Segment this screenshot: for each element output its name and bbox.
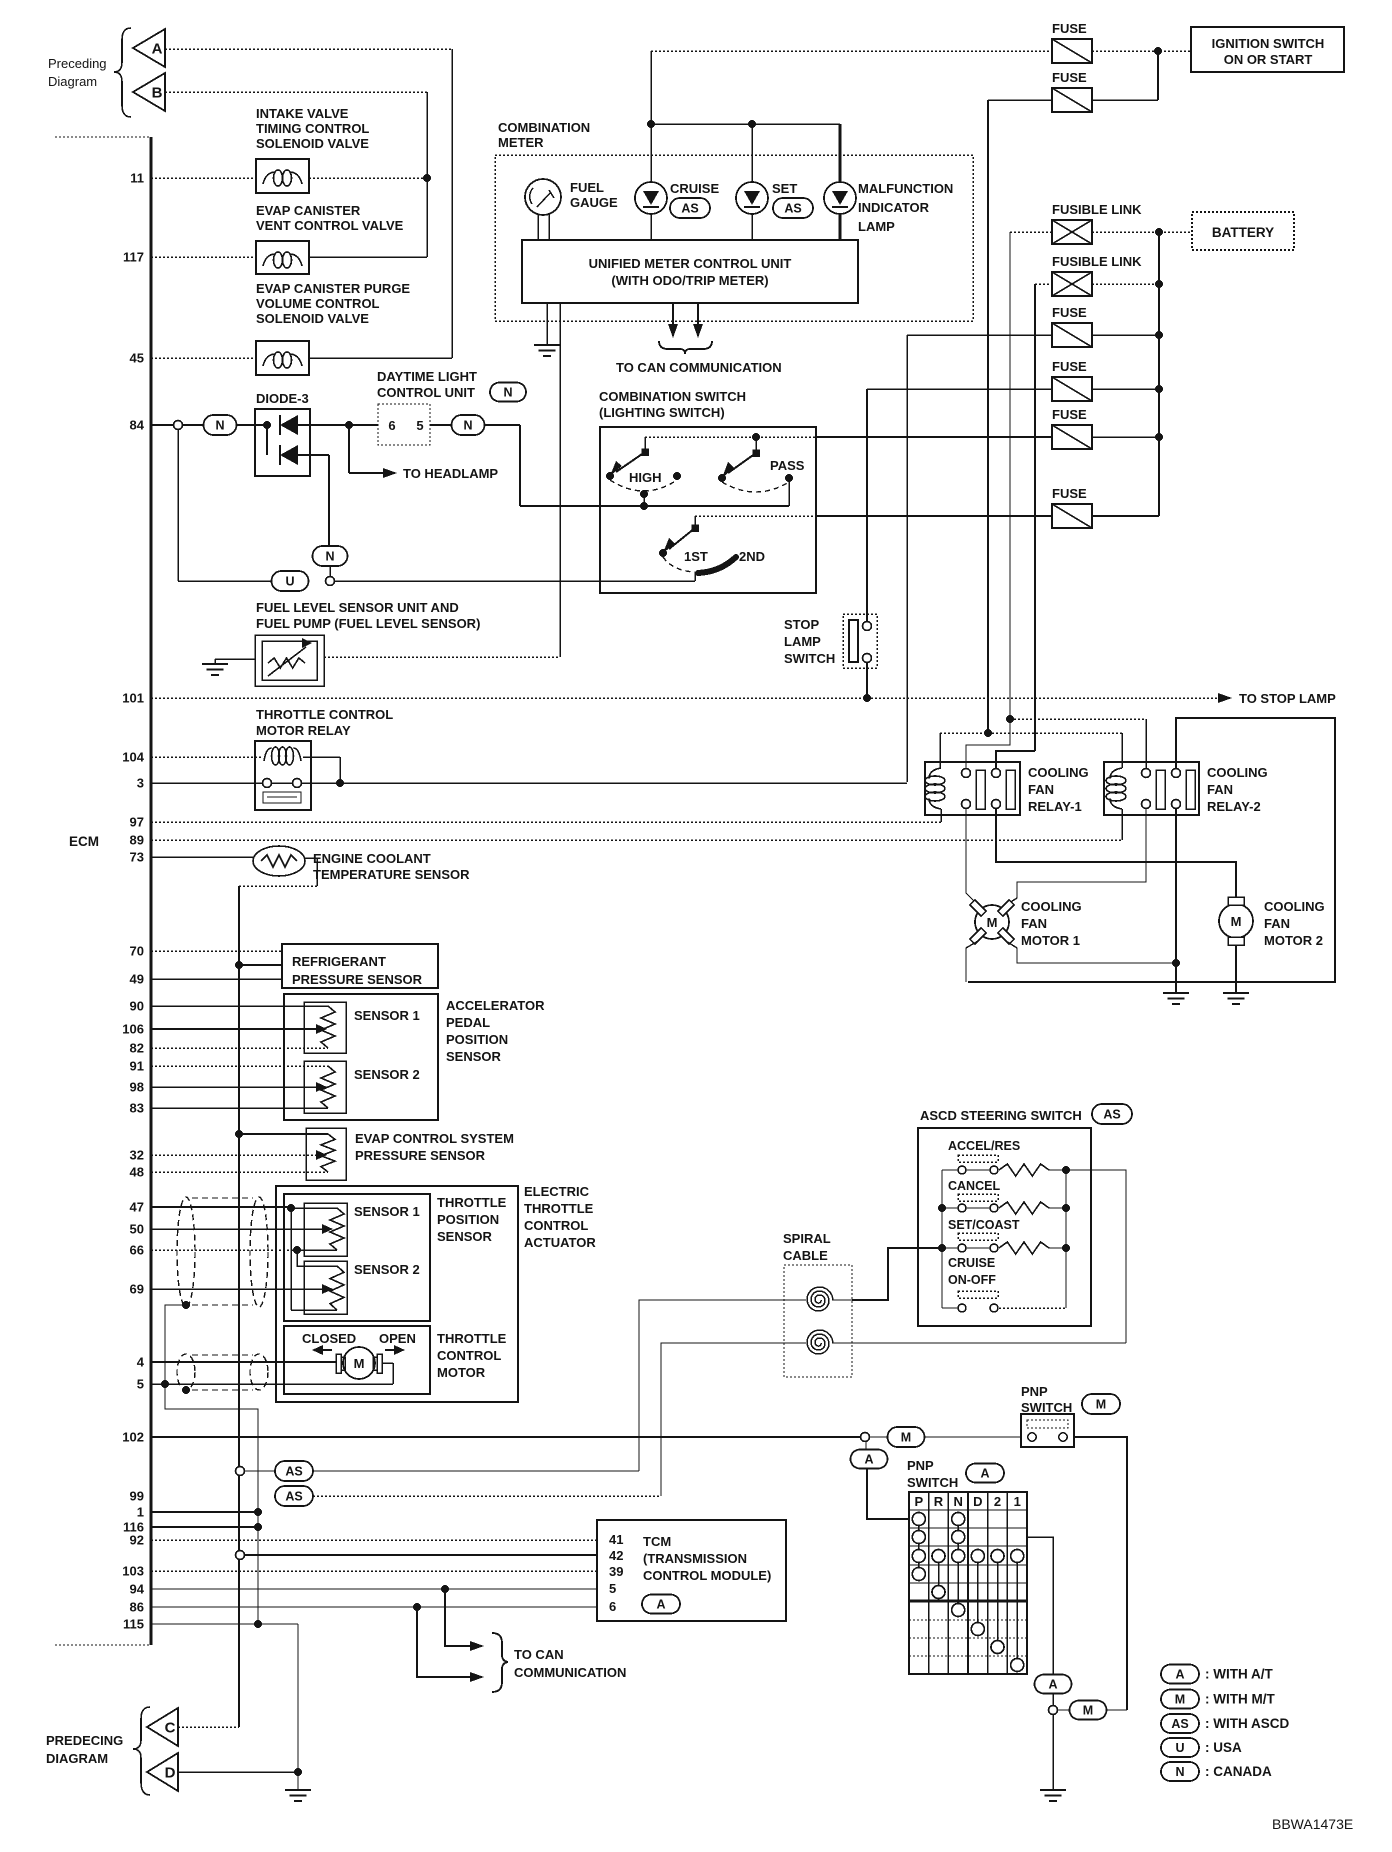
svg-text:HIGH: HIGH [629, 470, 662, 485]
svg-text:R: R [934, 1494, 944, 1509]
svg-text:UNIFIED METER CONTROL UNIT: UNIFIED METER CONTROL UNIT [589, 256, 792, 271]
svg-text:FAN: FAN [1207, 782, 1233, 797]
svg-text:DAYTIME LIGHT: DAYTIME LIGHT [377, 369, 477, 384]
svg-text:COOLING: COOLING [1028, 765, 1089, 780]
svg-text:THROTTLE CONTROL: THROTTLE CONTROL [256, 707, 393, 722]
svg-text:AS: AS [681, 202, 698, 216]
svg-text:FUSE: FUSE [1052, 407, 1087, 422]
svg-text:THROTTLE: THROTTLE [437, 1195, 507, 1210]
svg-text:47: 47 [130, 1200, 144, 1215]
svg-text:A: A [656, 1598, 665, 1612]
relay2 top-left contact feed from fusible link 1 [1006, 715, 1014, 723]
relay1 bottom-right to motor2 [996, 808, 1236, 898]
svg-text:73: 73 [130, 850, 144, 865]
wire fuel sensor to U/N net [324, 656, 560, 658]
svg-text:N: N [463, 419, 472, 433]
svg-text:CONTROL: CONTROL [524, 1218, 588, 1233]
svg-text:COMBINATION: COMBINATION [498, 120, 590, 135]
svg-text:84: 84 [130, 418, 145, 433]
svg-text:AS: AS [285, 1465, 302, 1479]
svg-text:U: U [285, 575, 294, 589]
U oval (USA) [272, 571, 309, 591]
CAN wires from meter [672, 303, 674, 324]
svg-text:M: M [987, 915, 998, 930]
svg-text:A: A [1175, 1668, 1184, 1682]
wire temp sensor down the sensor-ground bus [304, 857, 317, 859]
A oval (pin102 branch) [865, 1442, 867, 1450]
ASCD wire 1 (accel/cancel side) [313, 1470, 639, 1472]
wire pin 5 row [382, 1362, 393, 1364]
svg-text:FAN: FAN [1264, 916, 1290, 931]
PNP table contact circles [918, 1519, 920, 1574]
svg-text:M: M [1096, 1398, 1106, 1412]
ignition switch box [1191, 27, 1344, 72]
wire diode2 to N oval [328, 455, 330, 546]
shield (twisted pair) rows 4-5 [177, 1354, 195, 1390]
relay1 coil to pin 97 row [940, 809, 942, 822]
svg-text:COOLING: COOLING [1207, 765, 1268, 780]
svg-text:M: M [354, 1356, 365, 1371]
svg-text:ACCEL/RES: ACCEL/RES [948, 1139, 1020, 1153]
svg-text:ON OR START: ON OR START [1224, 52, 1313, 67]
svg-text:FUSE: FUSE [1052, 486, 1087, 501]
svg-text:(WITH ODO/TRIP METER): (WITH ODO/TRIP METER) [611, 273, 768, 288]
diode-3 box [255, 409, 310, 476]
svg-text:M: M [901, 1431, 911, 1445]
svg-text:FUSE: FUSE [1052, 70, 1087, 85]
svg-text:COOLING: COOLING [1021, 899, 1082, 914]
wire pin 101 row / to stop lamp [151, 697, 1218, 699]
ASCD accel/res out wire [1066, 1169, 1126, 1171]
ELECTRIC THROTTLE CONTROL ACTUATOR box [276, 1186, 518, 1402]
stop lamp switch [843, 614, 877, 668]
svg-text:PASS: PASS [770, 458, 805, 473]
svg-text:LAMP: LAMP [858, 219, 895, 234]
wire pin 94 row (TCM 5) [151, 1588, 597, 1590]
REFRIGERANT PRESSURE SENSOR [151, 950, 282, 952]
svg-text:PRESSURE SENSOR: PRESSURE SENSOR [355, 1148, 486, 1163]
engine coolant temperature sensor [151, 856, 254, 858]
svg-text:5: 5 [609, 1581, 616, 1596]
svg-text:RELAY-2: RELAY-2 [1207, 799, 1261, 814]
wire fusible link2 [1035, 283, 1052, 285]
wire pin 4 row [151, 1361, 336, 1363]
wire from triangle A to solenoid feed [165, 48, 452, 50]
svg-text:FUSE: FUSE [1052, 305, 1087, 320]
M oval (pin102) [888, 1427, 925, 1447]
wire fuse6 right [1092, 515, 1159, 517]
wire fuse2 right [1092, 99, 1158, 101]
svg-text:SWITCH: SWITCH [907, 1475, 958, 1490]
relay1 top-right contact feed from fusible link 2 [996, 751, 1035, 768]
svg-text:FAN: FAN [1021, 916, 1047, 931]
wire fuse1 to cruise lamp [650, 51, 652, 182]
svg-text:STOP: STOP [784, 617, 819, 632]
AS oval (ascd) [1092, 1104, 1132, 1124]
svg-text:PNP: PNP [907, 1458, 934, 1473]
svg-text:6: 6 [609, 1599, 616, 1614]
svg-text:CANCEL: CANCEL [948, 1179, 1000, 1193]
svg-text:69: 69 [130, 1282, 144, 1297]
unified meter control unit box [522, 240, 858, 303]
relay2 top-right contact loop wire [968, 718, 1335, 982]
COOLING FAN RELAY-1 [925, 762, 1020, 815]
fuel gauge [525, 179, 561, 215]
CAN arrows (bottom) [445, 1589, 470, 1646]
svg-text:FUEL LEVEL SENSOR UNIT AND: FUEL LEVEL SENSOR UNIT AND [256, 600, 459, 615]
TPS sensor2 return [290, 1208, 292, 1310]
svg-text:101: 101 [122, 691, 144, 706]
AS oval wire1 [236, 1467, 245, 1476]
throttle control motor [343, 1347, 375, 1379]
svg-text:COOLING: COOLING [1264, 899, 1325, 914]
svg-text:METER: METER [498, 135, 544, 150]
svg-text:32: 32 [130, 1148, 144, 1163]
evap canister purge volume control solenoid valve [256, 341, 309, 375]
THROTTLE CONTROL MOTOR box [284, 1326, 430, 1394]
wire pin 11 row [151, 177, 256, 179]
svg-text:IGNITION SWITCH: IGNITION SWITCH [1212, 36, 1325, 51]
meter ground [546, 303, 548, 345]
svg-text:MALFUNCTION: MALFUNCTION [858, 181, 953, 196]
svg-text:DIODE-3: DIODE-3 [256, 391, 309, 406]
svg-text:COMMUNICATION: COMMUNICATION [514, 1665, 626, 1680]
HIGH switch [644, 437, 646, 452]
svg-text:Preceding: Preceding [48, 56, 107, 71]
connector triangle D [147, 1753, 178, 1791]
svg-text:FUSE: FUSE [1052, 359, 1087, 374]
svg-text:FUEL PUMP (FUEL LEVEL SENSOR): FUEL PUMP (FUEL LEVEL SENSOR) [256, 616, 480, 631]
svg-text:RELAY-1: RELAY-1 [1028, 799, 1082, 814]
wire fuse1 left [651, 50, 1052, 52]
svg-text:PREDECING: PREDECING [46, 1733, 123, 1748]
svg-text:1: 1 [137, 1505, 144, 1520]
svg-text:SET/COAST: SET/COAST [948, 1218, 1020, 1232]
svg-text:N: N [954, 1494, 963, 1509]
svg-text:CLOSED: CLOSED [302, 1331, 356, 1346]
svg-text:COMBINATION SWITCH: COMBINATION SWITCH [599, 389, 746, 404]
svg-text:N: N [325, 550, 334, 564]
svg-text:TO CAN: TO CAN [514, 1647, 564, 1662]
wire fuse3 [907, 334, 1052, 336]
svg-text:ELECTRIC: ELECTRIC [524, 1184, 590, 1199]
wire fuse1 right to ignition [1092, 50, 1191, 52]
combination meter box [495, 155, 973, 321]
svg-text:TCM: TCM [643, 1534, 671, 1549]
cooling fan relay feed wires [940, 732, 1122, 734]
svg-text:TO STOP LAMP: TO STOP LAMP [1239, 691, 1336, 706]
junction dots ground bus rows 1/116/115 [254, 1508, 262, 1516]
svg-text:45: 45 [130, 351, 144, 366]
TPS sensor 2 [304, 1261, 347, 1314]
svg-text:94: 94 [130, 1582, 145, 1597]
throttle control motor relay [255, 741, 311, 810]
open circle node U/N [326, 577, 335, 586]
wire PNP M to M oval (bottom) [1074, 1437, 1127, 1710]
svg-text:EVAP CANISTER PURGE: EVAP CANISTER PURGE [256, 281, 410, 296]
wire pin84 to combination switch [484, 424, 520, 426]
svg-text:M: M [1083, 1704, 1093, 1718]
AS oval set [773, 198, 813, 218]
svg-text:FUEL: FUEL [570, 180, 604, 195]
THROTTLE POSITION SENSOR box [284, 1194, 430, 1321]
svg-text:48: 48 [130, 1165, 144, 1180]
svg-text:POSITION: POSITION [437, 1212, 499, 1227]
svg-text:42: 42 [609, 1548, 623, 1563]
wire pin 104 row [151, 756, 262, 758]
svg-text:89: 89 [130, 833, 144, 848]
relay2 coil to pin 89 row [1121, 809, 1123, 840]
svg-text:N: N [503, 386, 512, 400]
svg-text:N: N [1175, 1765, 1184, 1779]
svg-text:MOTOR: MOTOR [437, 1365, 486, 1380]
pedal sensor 2 [304, 1061, 346, 1113]
wire fuse4 [867, 388, 1052, 390]
legend AS [1161, 1714, 1199, 1733]
wire pin84 tap down to U oval row [177, 429, 179, 581]
svg-text:THROTTLE: THROTTLE [524, 1201, 594, 1216]
connector triangle A (preceding diagram) [133, 29, 165, 67]
svg-text:FAN: FAN [1028, 782, 1054, 797]
svg-text:MOTOR RELAY: MOTOR RELAY [256, 723, 351, 738]
sensor ground bus vertical [238, 886, 240, 1727]
svg-text:AS: AS [285, 1490, 302, 1504]
svg-text:PRESSURE SENSOR: PRESSURE SENSOR [292, 972, 423, 987]
svg-text:103: 103 [122, 1564, 144, 1579]
svg-text:6: 6 [388, 418, 395, 433]
svg-text:A: A [980, 1467, 989, 1481]
svg-text:83: 83 [130, 1101, 144, 1116]
svg-text:FUSE: FUSE [1052, 21, 1087, 36]
evap canister vent control valve [256, 241, 309, 274]
svg-text:: WITH A/T: : WITH A/T [1205, 1667, 1273, 1682]
wire pin 86 row (TCM 6) [151, 1606, 597, 1608]
wire pin 84 row [151, 424, 173, 426]
svg-text:CRUISE: CRUISE [670, 181, 719, 196]
svg-text:TIMING CONTROL: TIMING CONTROL [256, 121, 369, 136]
junction dot wire B / pin 11 row [423, 174, 431, 182]
N oval (canada) on pin 84 row [204, 415, 237, 435]
svg-text:DIAGRAM: DIAGRAM [46, 1751, 108, 1766]
ASCD wire 2 (pin 99) [313, 1495, 661, 1497]
svg-text:CRUISE: CRUISE [948, 1256, 995, 1270]
svg-text:3: 3 [137, 776, 144, 791]
svg-text:ECM: ECM [69, 834, 99, 849]
relay1 bottom-left to motor1 [966, 808, 978, 905]
fuel level sensor unit box [255, 635, 324, 686]
svg-text:90: 90 [130, 999, 144, 1014]
svg-text:TO CAN COMMUNICATION: TO CAN COMMUNICATION [616, 360, 782, 375]
wire pin 1 row [151, 1511, 258, 1513]
wire pin 45 row [151, 357, 256, 359]
svg-text:SET: SET [772, 181, 797, 196]
svg-text:OPEN: OPEN [379, 1331, 416, 1346]
battery bus [1158, 232, 1160, 516]
M oval (bottom) [1058, 1709, 1070, 1711]
COOLING FAN MOTOR 2 [1219, 904, 1253, 938]
PNP switch (M/T) box [1021, 1414, 1074, 1447]
wire pin 103 row (TCM 39) [151, 1570, 597, 1572]
svg-text:ON-OFF: ON-OFF [948, 1273, 996, 1287]
svg-text:49: 49 [130, 972, 144, 987]
diode D2 [266, 425, 268, 455]
PASS switch [752, 433, 760, 441]
ASCD steering switch box [918, 1128, 1091, 1326]
shield (twisted pair) rows 47-69 [177, 1197, 195, 1307]
svg-text:97: 97 [130, 815, 144, 830]
svg-text:D: D [165, 1765, 176, 1782]
AS oval cruise [670, 198, 710, 218]
wire pin 89 row [151, 839, 1122, 841]
relay2 bottom-left to motor1 [1006, 808, 1146, 905]
ASCD left bus [941, 1170, 943, 1308]
svg-text:SWITCH: SWITCH [1021, 1400, 1072, 1415]
svg-text:AS: AS [1103, 1108, 1120, 1122]
svg-text:5: 5 [416, 418, 423, 433]
N oval above [313, 546, 348, 566]
wire to ground below [1052, 1715, 1054, 1790]
legend U [1161, 1738, 1199, 1757]
svg-text:: USA: : USA [1205, 1740, 1242, 1755]
svg-text:BBWA1473E: BBWA1473E [1272, 1816, 1353, 1832]
wire pin 117 row [151, 256, 256, 258]
svg-text:POSITION: POSITION [446, 1032, 508, 1047]
svg-text:VENT CONTROL VALVE: VENT CONTROL VALVE [256, 218, 404, 233]
spiral cable box [784, 1265, 852, 1377]
to headlamp arrow [349, 472, 383, 474]
svg-text:THROTTLE: THROTTLE [437, 1331, 507, 1346]
PNP table output wire [1027, 1537, 1053, 1674]
svg-text:82: 82 [130, 1041, 144, 1056]
svg-text:1: 1 [1014, 1494, 1021, 1509]
wire pin 115 row [151, 1623, 298, 1625]
svg-text:: WITH M/T: : WITH M/T [1205, 1692, 1275, 1707]
svg-text:70: 70 [130, 944, 144, 959]
svg-text:PNP: PNP [1021, 1384, 1048, 1399]
fuel gauge wires to control unit [537, 214, 539, 240]
wire fuse2 to ASCD riser [987, 100, 989, 733]
svg-text:CABLE: CABLE [783, 1248, 828, 1263]
svg-text:ACCELERATOR: ACCELERATOR [446, 998, 545, 1013]
svg-text:MOTOR 1: MOTOR 1 [1021, 933, 1080, 948]
wire pin115 down to D/ground [297, 1624, 299, 1790]
wire fuse4 to stop lamp [866, 389, 868, 621]
svg-text:2ND: 2ND [739, 549, 765, 564]
legend M [1161, 1690, 1199, 1709]
spiral 2 [807, 1330, 833, 1354]
svg-text:SENSOR 2: SENSOR 2 [354, 1262, 420, 1277]
AS oval wire2 (pin99) [275, 1486, 313, 1506]
lamp feed bus [651, 123, 840, 125]
svg-text:2: 2 [994, 1494, 1001, 1509]
svg-text:SENSOR: SENSOR [446, 1049, 502, 1064]
svg-text:98: 98 [130, 1080, 144, 1095]
svg-text:86: 86 [130, 1600, 144, 1615]
svg-text:SOLENOID VALVE: SOLENOID VALVE [256, 311, 369, 326]
svg-text:REFRIGERANT: REFRIGERANT [292, 954, 386, 969]
legend N [1161, 1762, 1199, 1781]
svg-text:92: 92 [130, 1533, 144, 1548]
preceding diagram brace (top) [114, 28, 131, 117]
EVAP CONTROL SYSTEM PRESSURE SENSOR [235, 1130, 243, 1138]
PNP switch (A/T) table [909, 1492, 1027, 1674]
svg-text:A: A [1048, 1678, 1057, 1692]
PREDECING DIAGRAM brace [133, 1707, 150, 1795]
spiral 1 [807, 1287, 833, 1311]
svg-text:ASCD STEERING SWITCH: ASCD STEERING SWITCH [920, 1108, 1082, 1123]
wire pin 102 row [151, 1436, 860, 1438]
svg-text:AS: AS [784, 202, 801, 216]
svg-text:SENSOR: SENSOR [437, 1229, 493, 1244]
svg-text:GAUGE: GAUGE [570, 195, 618, 210]
wire fusible link1 left [1010, 231, 1052, 233]
junction dot pin84/headlamp [345, 421, 353, 429]
svg-text:ACTUATOR: ACTUATOR [524, 1235, 596, 1250]
svg-text:D: D [973, 1494, 982, 1509]
shield drain wire [182, 1301, 190, 1309]
svg-text:(LIGHTING SWITCH): (LIGHTING SWITCH) [599, 405, 725, 420]
svg-text:SENSOR 1: SENSOR 1 [354, 1204, 420, 1219]
svg-text:104: 104 [122, 750, 144, 765]
wire pin 116 row [151, 1526, 258, 1528]
wire pin 97 row [151, 821, 941, 823]
svg-text:CONTROL MODULE): CONTROL MODULE) [643, 1568, 771, 1583]
svg-text:BATTERY: BATTERY [1212, 225, 1274, 240]
connector triangle C [147, 1708, 178, 1746]
svg-text:39: 39 [609, 1564, 623, 1579]
svg-text:99: 99 [130, 1489, 144, 1504]
svg-text:M: M [1231, 914, 1242, 929]
svg-text:: WITH ASCD: : WITH ASCD [1205, 1716, 1289, 1731]
battery box [1192, 212, 1294, 250]
svg-text:5: 5 [137, 1377, 144, 1392]
svg-text:FUSIBLE LINK: FUSIBLE LINK [1052, 254, 1142, 269]
svg-text:N: N [215, 419, 224, 433]
svg-text:TEMPERATURE SENSOR: TEMPERATURE SENSOR [313, 867, 470, 882]
svg-text:1ST: 1ST [684, 549, 708, 564]
N oval after daytime unit [452, 415, 485, 435]
svg-text:B: B [152, 85, 163, 102]
svg-text:TO HEADLAMP: TO HEADLAMP [403, 466, 498, 481]
open circle node pin 84 [174, 421, 183, 430]
svg-text:PEDAL: PEDAL [446, 1015, 490, 1030]
TPS sensor 1 [304, 1203, 347, 1256]
pedal sensor 1 [304, 1002, 346, 1053]
high/pass feed wire [645, 436, 816, 438]
svg-text:A: A [152, 41, 163, 58]
ASCD right bus [1065, 1170, 1067, 1308]
svg-text:SENSOR 1: SENSOR 1 [354, 1008, 420, 1023]
wire row 42 from ground bus circle [236, 1551, 245, 1560]
cruise indicator lamp [635, 182, 667, 214]
legend A [1161, 1665, 1199, 1684]
svg-text:SENSOR 2: SENSOR 2 [354, 1067, 420, 1082]
CAN brace (bottom) [492, 1633, 508, 1692]
fuel sensor ground [215, 658, 255, 660]
daytime light control unit box [349, 424, 378, 426]
svg-text:106: 106 [122, 1022, 144, 1037]
svg-text:MOTOR 2: MOTOR 2 [1264, 933, 1323, 948]
svg-text:41: 41 [609, 1532, 623, 1547]
wire triangle D [178, 1771, 298, 1773]
combination switch box [600, 427, 816, 593]
TCM box [597, 1520, 786, 1621]
svg-text:117: 117 [123, 250, 144, 265]
svg-text:4: 4 [137, 1355, 145, 1370]
wire pin 92 row (TCM 41) [151, 1539, 597, 1541]
svg-text:INDICATOR: INDICATOR [858, 200, 930, 215]
svg-text:EVAP CONTROL SYSTEM: EVAP CONTROL SYSTEM [355, 1131, 514, 1146]
